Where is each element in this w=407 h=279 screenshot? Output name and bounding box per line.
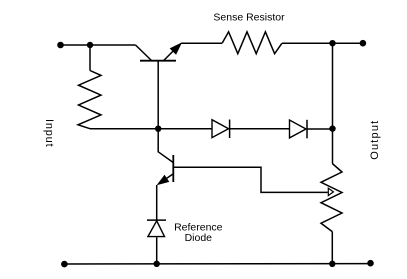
terminal input + [57, 42, 64, 49]
zener D3 triangle [148, 221, 165, 237]
wire bottom rail [64, 263, 370, 265]
zener D3 cathode bar [147, 219, 166, 221]
transistor Q2 emitter [160, 174, 174, 184]
wire input top rail [61, 44, 136, 46]
node B middle junction [155, 126, 161, 132]
terminal output - [367, 260, 374, 267]
potentiometer wiper arrow [328, 188, 333, 195]
svg-text:Output: Output [369, 120, 381, 160]
transistor Q1 emitter arrow [171, 43, 182, 54]
wire Q2 emitter to zener [156, 185, 158, 220]
diode D1 triangle [212, 120, 229, 138]
wire pot to bottom rail [331, 232, 333, 264]
node A top junction [87, 42, 93, 48]
terminal input - [61, 261, 68, 268]
transistor Q1 base bar [140, 60, 176, 62]
wire middle rail [90, 128, 212, 130]
transistor Q1 base lead [157, 61, 159, 129]
wire right rail [332, 43, 334, 163]
node D diode rail junction [329, 125, 335, 131]
node F pot ground junction [329, 261, 335, 267]
svg-text:Input: Input [43, 119, 55, 147]
wire D1 to D2 [230, 128, 290, 130]
resistor R1 [78, 71, 101, 129]
wire R1 top lead [89, 45, 91, 71]
resistor R2 sense [222, 32, 282, 54]
transistor Q2 base bar [172, 155, 174, 182]
potentiometer R3 [321, 164, 342, 232]
transistor Q2 base wire [158, 129, 173, 163]
svg-text:Diode: Diode [185, 232, 213, 244]
node E zener ground junction [154, 261, 160, 267]
wire zener to bottom rail [156, 237, 158, 263]
transistor Q1 collector [136, 45, 152, 61]
transistor Q2 emitter arrow [158, 176, 169, 185]
svg-text:Sense Resistor: Sense Resistor [213, 12, 285, 24]
transistor Q1 emitter [164, 45, 180, 61]
terminal output + [360, 40, 367, 47]
wire sense resistor to output [282, 42, 363, 44]
wire D2 to right rail [307, 128, 333, 130]
diode D2 cathode bar [306, 120, 308, 139]
diode D1 cathode bar [229, 120, 231, 139]
transistor Q2 collector [173, 167, 327, 192]
node C output top junction [329, 40, 335, 46]
wire Q1 emitter to sense resistor [181, 42, 222, 44]
diode D2 triangle [290, 120, 307, 138]
